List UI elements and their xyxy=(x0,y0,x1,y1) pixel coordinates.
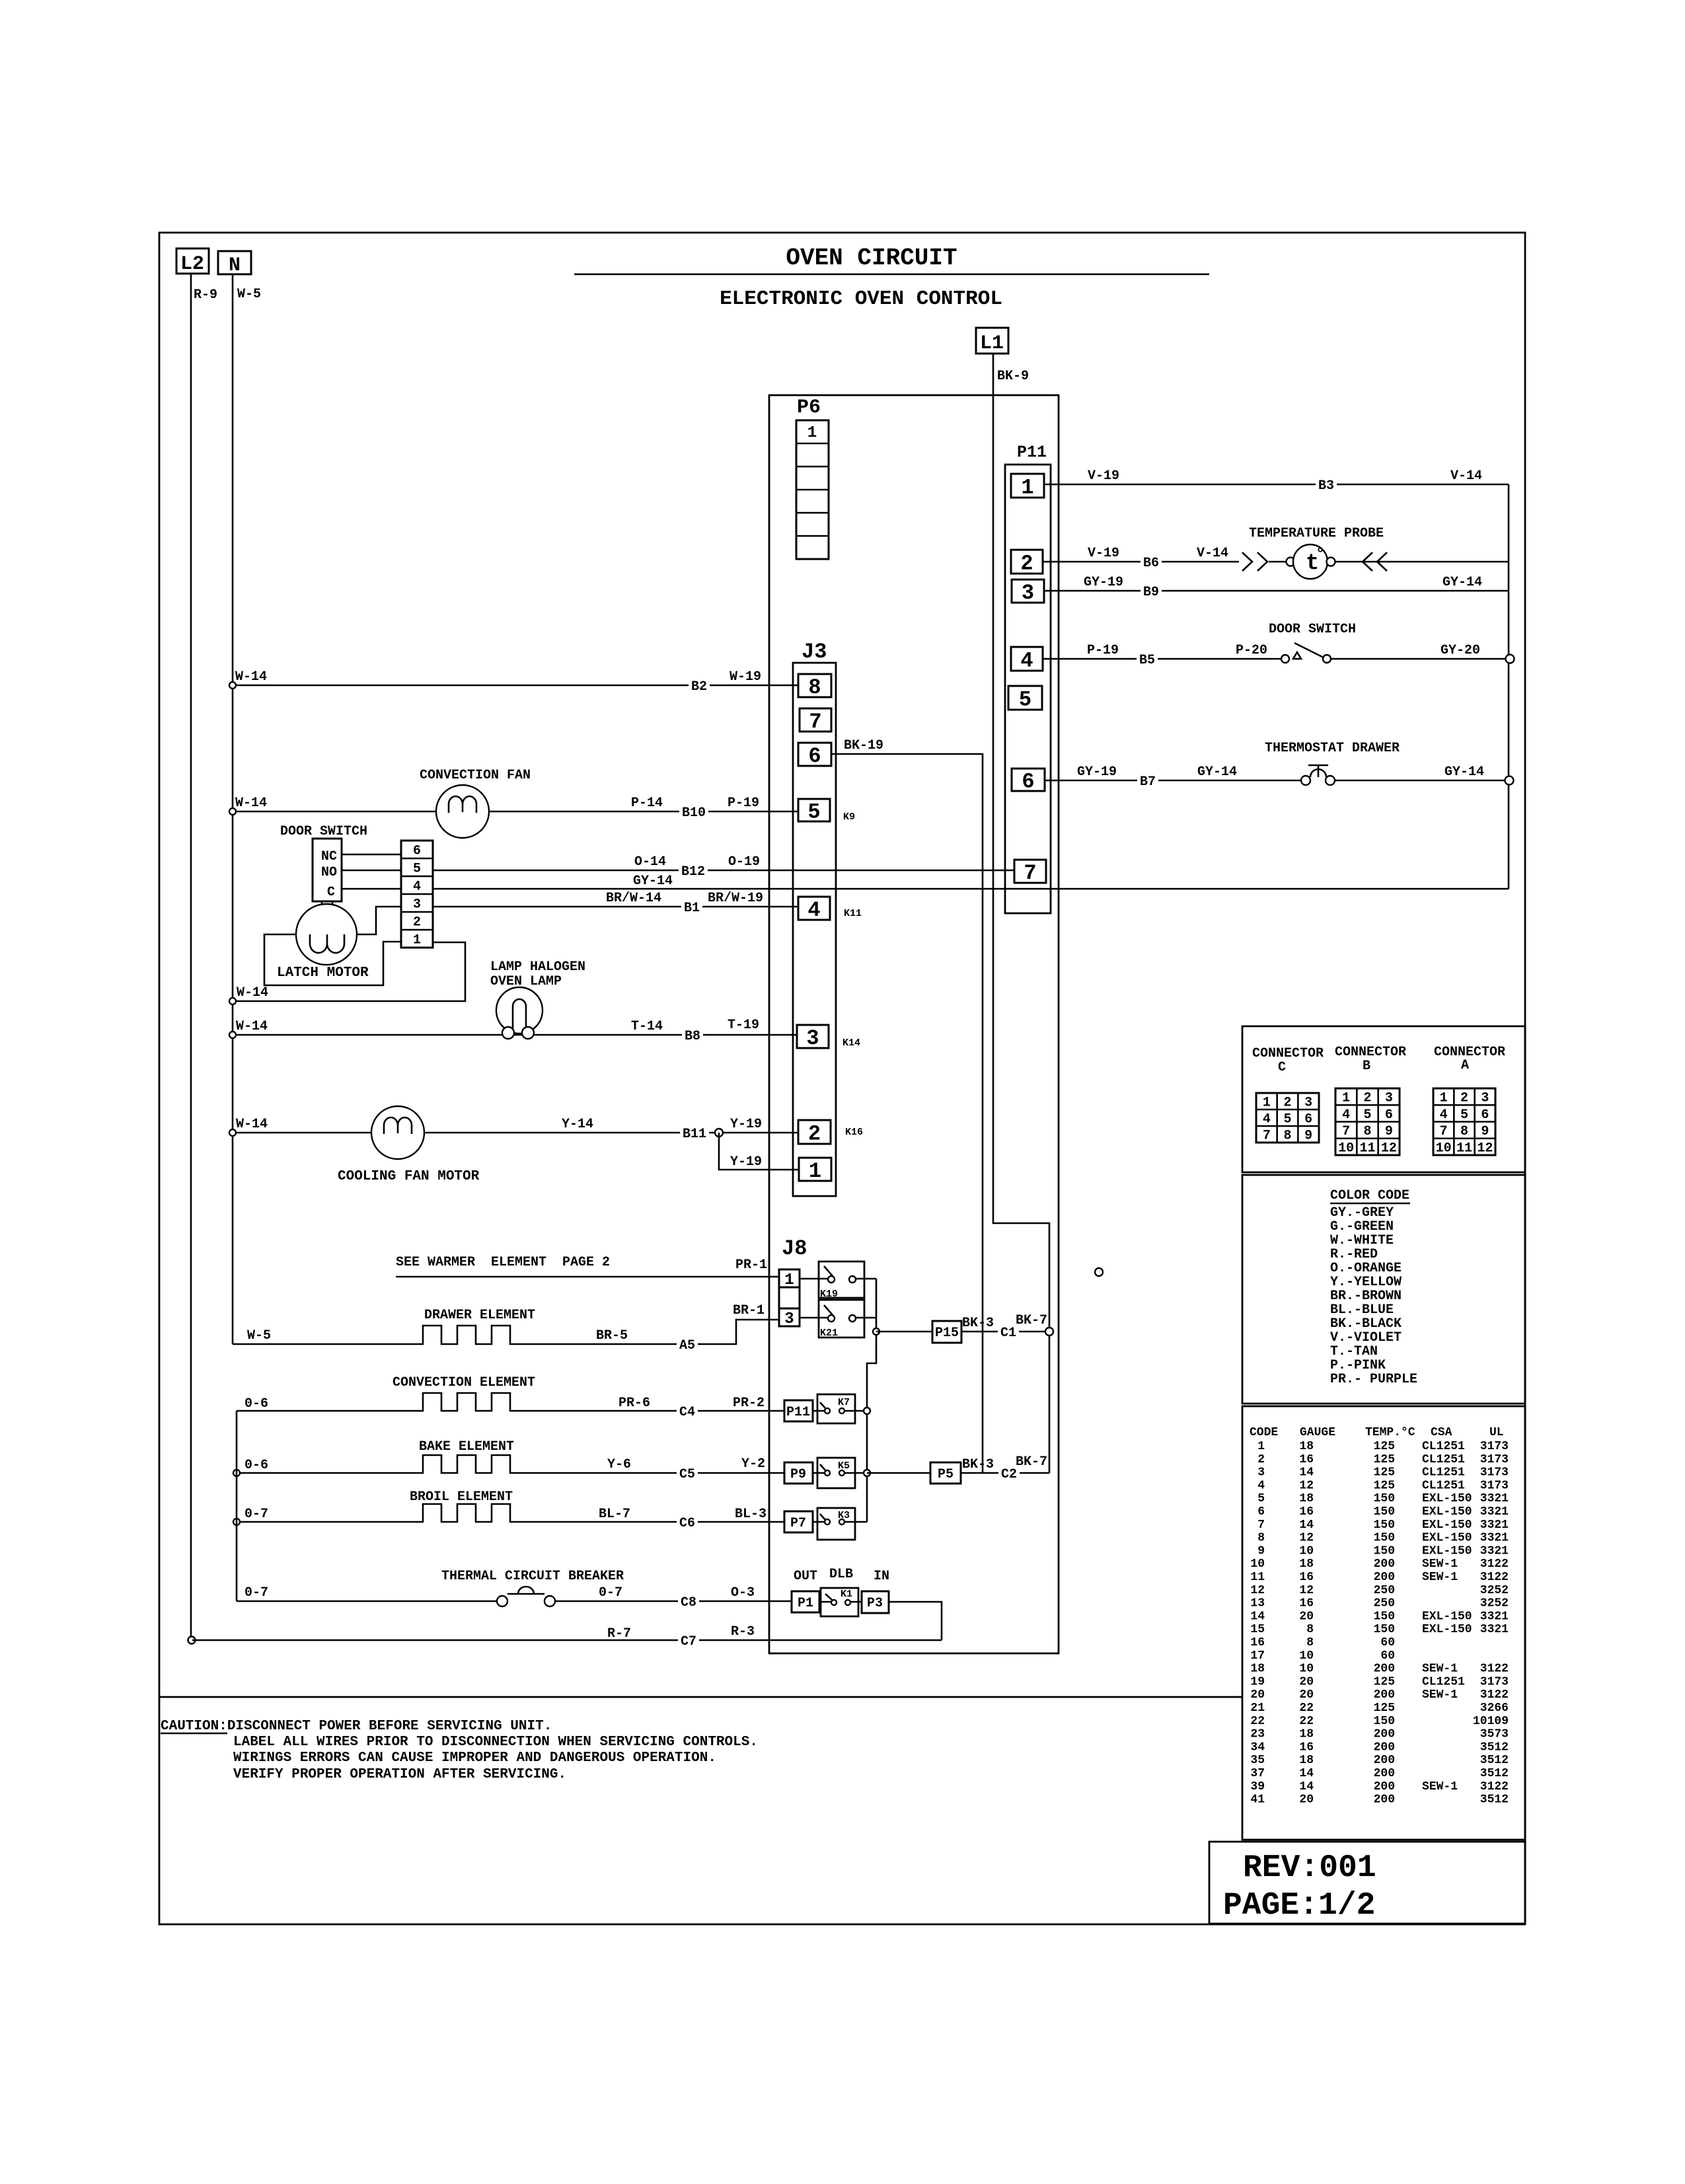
svg-text:0-7: 0-7 xyxy=(244,1585,268,1600)
terminal P7 xyxy=(784,1511,813,1532)
wire C to cell 4 xyxy=(342,888,401,890)
connector P11 outline xyxy=(1005,443,1051,913)
svg-text:14: 14 xyxy=(1299,1466,1314,1480)
svg-text:V-14: V-14 xyxy=(1450,469,1482,484)
svg-text:BK-3: BK-3 xyxy=(962,1316,994,1331)
svg-text:CONVECTION ELEMENT: CONVECTION ELEMENT xyxy=(393,1375,535,1390)
svg-text:PR-6: PR-6 xyxy=(618,1396,650,1411)
svg-text:19: 19 xyxy=(1250,1675,1265,1688)
svg-text:7: 7 xyxy=(809,710,821,734)
svg-text:LAMP HALOGEN: LAMP HALOGEN xyxy=(490,960,585,975)
inline connector chevrons right-pointing xyxy=(1242,552,1267,571)
svg-text:10: 10 xyxy=(1250,1558,1265,1571)
connector A pin grid xyxy=(1433,1088,1495,1156)
terminal P5 xyxy=(930,1462,961,1484)
connector P11 pin 6 xyxy=(1012,769,1045,794)
svg-text:5: 5 xyxy=(413,862,421,877)
svg-text:Y.-YELLOW: Y.-YELLOW xyxy=(1330,1275,1402,1290)
svg-text:22: 22 xyxy=(1250,1715,1265,1728)
svg-text:3321: 3321 xyxy=(1480,1505,1509,1519)
connector B label xyxy=(1335,1045,1406,1074)
wire NC to cell 6 xyxy=(342,854,401,856)
svg-text:J8: J8 xyxy=(782,1236,807,1261)
wire P-19/B5/P-20 from P11 pin 4 xyxy=(1043,658,1505,660)
svg-text:CONNECTOR: CONNECTOR xyxy=(1434,1045,1505,1060)
svg-text:8: 8 xyxy=(1306,1636,1314,1649)
svg-text:10: 10 xyxy=(1299,1649,1314,1663)
svg-text:9: 9 xyxy=(1304,1129,1312,1144)
svg-text:3: 3 xyxy=(1481,1091,1489,1106)
wire door switch box to latch motor stubs xyxy=(322,901,332,905)
svg-text:18: 18 xyxy=(1299,1492,1314,1505)
wire junction to P15 xyxy=(876,1331,932,1333)
svg-text:18: 18 xyxy=(1299,1754,1314,1767)
wire N/W-5 vertical bus xyxy=(232,274,234,1344)
svg-text:2: 2 xyxy=(808,1122,821,1147)
wire designator B2 xyxy=(689,678,710,693)
svg-text:K19: K19 xyxy=(820,1289,838,1300)
convection element xyxy=(237,1375,784,1411)
svg-text:3252: 3252 xyxy=(1480,1584,1509,1597)
wire K7 wiring xyxy=(813,1410,867,1412)
svg-text:DOOR SWITCH: DOOR SWITCH xyxy=(280,824,367,839)
svg-text:W-5: W-5 xyxy=(247,1328,271,1343)
svg-text:3: 3 xyxy=(784,1310,794,1328)
wire designator B12 xyxy=(679,863,708,878)
svg-text:IN: IN xyxy=(874,1569,889,1584)
svg-text:P-14: P-14 xyxy=(631,796,663,811)
svg-text:B1: B1 xyxy=(684,901,700,916)
svg-text:PAGE:1/2: PAGE:1/2 xyxy=(1223,1888,1375,1924)
connector J3 pin 3 xyxy=(797,1025,829,1051)
svg-text:150: 150 xyxy=(1374,1492,1395,1505)
svg-text:REV:001: REV:001 xyxy=(1243,1850,1376,1886)
svg-text:125: 125 xyxy=(1374,1440,1395,1453)
wire code table header xyxy=(1250,1426,1504,1439)
svg-text:GY-14: GY-14 xyxy=(633,874,673,889)
wire W-14 feed to latch cell 1 xyxy=(233,942,465,1001)
svg-text:NC: NC xyxy=(321,849,337,864)
svg-text:GY-20: GY-20 xyxy=(1441,643,1480,658)
svg-text:W.-WHITE: W.-WHITE xyxy=(1330,1233,1394,1248)
wire Y-19 branch to J3 pin 1 xyxy=(719,1133,799,1170)
wire J8 pin3 to K21 xyxy=(800,1317,828,1319)
svg-text:14: 14 xyxy=(1250,1610,1265,1623)
connector J8 middle cell xyxy=(779,1287,800,1308)
junction node at P15 takeoff xyxy=(873,1328,880,1335)
svg-text:125: 125 xyxy=(1374,1466,1395,1480)
right-side vertical bus xyxy=(1508,484,1510,889)
svg-text:1: 1 xyxy=(807,424,817,442)
wire P15 to BK-7 terminal C1 xyxy=(961,1331,1046,1333)
svg-text:1: 1 xyxy=(809,1159,821,1184)
svg-text:CL1251: CL1251 xyxy=(1422,1440,1465,1453)
wire designator C1 xyxy=(998,1324,1019,1339)
relay K7 xyxy=(817,1394,855,1423)
svg-text:W-14: W-14 xyxy=(235,796,267,811)
wire W-14/Y-14/B11 to junction and J3 pin 2 xyxy=(233,1132,798,1134)
svg-text:125: 125 xyxy=(1374,1479,1395,1492)
svg-text:3: 3 xyxy=(806,1026,819,1051)
svg-text:DOOR SWITCH: DOOR SWITCH xyxy=(1269,622,1356,637)
svg-text:2: 2 xyxy=(1460,1091,1468,1106)
wire designator B5 xyxy=(1137,652,1158,666)
junction node on N bus at cooling fan row xyxy=(229,1129,236,1136)
svg-text:GY-19: GY-19 xyxy=(1084,575,1123,590)
svg-text:GY-19: GY-19 xyxy=(1077,765,1117,780)
svg-text:Y-6: Y-6 xyxy=(607,1457,631,1472)
svg-text:3321: 3321 xyxy=(1480,1610,1509,1623)
svg-text:10: 10 xyxy=(1299,1663,1314,1676)
wire GY-14 cell4 to right bus xyxy=(433,888,1509,890)
svg-text:R-3: R-3 xyxy=(731,1624,755,1639)
wire K3 wiring xyxy=(813,1521,867,1523)
svg-text:EXL-150: EXL-150 xyxy=(1422,1492,1472,1505)
svg-text:6: 6 xyxy=(808,744,821,769)
svg-text:18: 18 xyxy=(1299,1440,1314,1453)
svg-text:ELECTRONIC OVEN CONTROL: ELECTRONIC OVEN CONTROL xyxy=(720,287,1002,311)
svg-text:NO: NO xyxy=(321,865,337,880)
svg-text:3173: 3173 xyxy=(1480,1479,1509,1492)
svg-text:K16: K16 xyxy=(845,1127,863,1138)
svg-text:K9: K9 xyxy=(843,811,855,823)
svg-text:P11: P11 xyxy=(786,1405,810,1420)
relay K5 xyxy=(817,1458,855,1488)
svg-text:CONNECTOR: CONNECTOR xyxy=(1335,1045,1406,1060)
element supply vertical bus xyxy=(236,1411,238,1601)
svg-text:P11: P11 xyxy=(1017,443,1047,462)
connector J3 pin 5 xyxy=(798,799,830,825)
svg-text:COOLING FAN MOTOR: COOLING FAN MOTOR xyxy=(338,1169,480,1184)
svg-text:5: 5 xyxy=(1363,1108,1371,1123)
svg-text:4: 4 xyxy=(1263,1112,1271,1127)
connector P11 pin 7 xyxy=(1014,860,1046,885)
svg-text:V-19: V-19 xyxy=(1088,469,1119,484)
svg-text:3512: 3512 xyxy=(1480,1754,1509,1767)
svg-text:EXL-150: EXL-150 xyxy=(1422,1519,1472,1532)
separator line above caution block xyxy=(159,1696,1242,1698)
wire designator B11 xyxy=(680,1125,709,1140)
wire designator B10 xyxy=(679,804,708,819)
svg-text:39: 39 xyxy=(1250,1780,1265,1793)
control board outline box xyxy=(769,395,1059,1653)
svg-text:W-19: W-19 xyxy=(730,669,761,685)
svg-text:UL: UL xyxy=(1489,1426,1504,1439)
svg-text:3: 3 xyxy=(1304,1096,1312,1111)
connector J3 pin 4 xyxy=(798,897,830,923)
svg-text:3: 3 xyxy=(1022,581,1034,605)
svg-text:125: 125 xyxy=(1374,1453,1395,1466)
wire designator C6 xyxy=(677,1515,698,1529)
svg-text:C2: C2 xyxy=(1001,1467,1017,1482)
svg-text:B5: B5 xyxy=(1139,653,1155,668)
svg-text:12: 12 xyxy=(1299,1584,1314,1597)
junction node K5 output xyxy=(864,1470,870,1476)
svg-text:BR.-BROWN: BR.-BROWN xyxy=(1330,1289,1402,1304)
wire designator C7 xyxy=(678,1633,699,1647)
svg-text:P-19: P-19 xyxy=(728,796,759,811)
terminal P9 xyxy=(784,1462,813,1484)
svg-text:P-20: P-20 xyxy=(1236,643,1267,658)
svg-text:200: 200 xyxy=(1374,1793,1395,1807)
svg-text:V.-VIOLET: V.-VIOLET xyxy=(1330,1330,1402,1345)
svg-text:12: 12 xyxy=(1299,1479,1314,1492)
svg-text:10109: 10109 xyxy=(1473,1715,1509,1728)
svg-text:150: 150 xyxy=(1374,1715,1395,1728)
door switch contact block NC/NO/C xyxy=(313,839,342,901)
svg-text:16: 16 xyxy=(1299,1741,1314,1754)
svg-text:BL-7: BL-7 xyxy=(599,1507,630,1522)
caution note text xyxy=(161,1719,758,1782)
svg-text:R-7: R-7 xyxy=(607,1626,631,1641)
relay K21 xyxy=(819,1300,864,1339)
wire latch cell 3 to motor right terminal xyxy=(357,907,401,934)
svg-text:3: 3 xyxy=(1385,1091,1393,1106)
svg-text:10: 10 xyxy=(1299,1544,1314,1558)
svg-text:5: 5 xyxy=(1257,1492,1265,1505)
svg-text:2: 2 xyxy=(1283,1096,1291,1111)
svg-text:°: ° xyxy=(1316,546,1325,564)
wire W-14/B2/W-19 to J3 pin 8 xyxy=(233,685,798,687)
svg-text:B2: B2 xyxy=(691,679,707,695)
svg-text:O-14: O-14 xyxy=(634,854,666,870)
svg-text:CL1251: CL1251 xyxy=(1422,1479,1465,1492)
svg-text:20: 20 xyxy=(1299,1610,1314,1623)
svg-text:J3: J3 xyxy=(802,640,827,664)
svg-text:41: 41 xyxy=(1250,1793,1265,1807)
wire J8 pin1 to K19 xyxy=(800,1278,828,1280)
svg-text:12: 12 xyxy=(1381,1141,1397,1156)
svg-text:P3: P3 xyxy=(867,1596,883,1611)
cooling fan motor xyxy=(338,1106,480,1184)
svg-text:150: 150 xyxy=(1374,1519,1395,1532)
svg-text:P9: P9 xyxy=(790,1467,806,1482)
connector J3 pin 6 xyxy=(798,743,831,769)
svg-text:1: 1 xyxy=(1342,1091,1350,1106)
svg-text:B7: B7 xyxy=(1140,774,1156,790)
wire P5 to BK-7 at C2 xyxy=(961,1472,1049,1474)
svg-text:SEW-1: SEW-1 xyxy=(1422,1558,1458,1571)
svg-text:Y-19: Y-19 xyxy=(730,1154,762,1170)
svg-text:8: 8 xyxy=(1283,1129,1291,1144)
svg-text:BAKE ELEMENT: BAKE ELEMENT xyxy=(419,1439,514,1454)
connector P6 xyxy=(796,396,829,559)
connector P11 pin 3 xyxy=(1012,580,1044,605)
wire designator C2 xyxy=(998,1466,1020,1480)
svg-text:0-7: 0-7 xyxy=(599,1585,622,1600)
relay K19 xyxy=(819,1261,864,1300)
svg-text:150: 150 xyxy=(1374,1532,1395,1545)
svg-text:T-19: T-19 xyxy=(728,1018,759,1033)
svg-text:3122: 3122 xyxy=(1480,1558,1509,1571)
relay K1 double line break xyxy=(821,1588,858,1616)
svg-text:0-6: 0-6 xyxy=(244,1396,268,1412)
svg-text:4: 4 xyxy=(807,898,820,923)
wire code table rows xyxy=(1250,1440,1509,1807)
svg-text:7: 7 xyxy=(1257,1519,1265,1532)
svg-text:200: 200 xyxy=(1374,1754,1395,1767)
svg-text:200: 200 xyxy=(1374,1767,1395,1780)
wire designator B3 xyxy=(1316,477,1337,492)
wire O-14/B12/O-19 cell5 to P11 pin 7 xyxy=(433,870,1014,872)
svg-text:3321: 3321 xyxy=(1480,1532,1509,1545)
svg-text:BK-7: BK-7 xyxy=(1016,1454,1047,1470)
svg-text:3122: 3122 xyxy=(1480,1688,1509,1702)
wire L2/R-9 vertical bus xyxy=(190,274,192,1637)
color code box xyxy=(1242,1175,1525,1404)
svg-text:9: 9 xyxy=(1257,1544,1265,1558)
svg-text:B8: B8 xyxy=(685,1029,700,1044)
svg-text:21: 21 xyxy=(1250,1702,1265,1715)
halogen oven lamp xyxy=(490,960,585,1039)
wire V-19/B6/V-14 from P11 pin 2 xyxy=(1043,561,1509,563)
svg-text:3512: 3512 xyxy=(1480,1741,1509,1754)
svg-text:GY-14: GY-14 xyxy=(1197,765,1237,780)
svg-text:BK.-BLACK: BK.-BLACK xyxy=(1330,1316,1402,1332)
wire latch cell 1 loop to motor left terminal xyxy=(264,934,402,985)
svg-text:C4: C4 xyxy=(679,1405,695,1420)
svg-text:THERMAL CIRCUIT BREAKER: THERMAL CIRCUIT BREAKER xyxy=(441,1569,624,1584)
svg-text:BR/W-19: BR/W-19 xyxy=(708,891,763,906)
svg-text:BROIL ELEMENT: BROIL ELEMENT xyxy=(410,1489,513,1505)
svg-text:7: 7 xyxy=(1342,1124,1350,1139)
svg-text:1: 1 xyxy=(1263,1096,1271,1111)
svg-text:EXL-150: EXL-150 xyxy=(1422,1532,1472,1545)
svg-text:200: 200 xyxy=(1374,1571,1395,1584)
svg-text:O-3: O-3 xyxy=(731,1585,755,1600)
svg-text:B12: B12 xyxy=(681,864,705,880)
wire W-14/T-14/B8/T-19 to J3 pin 3 xyxy=(233,1034,797,1036)
svg-text:8: 8 xyxy=(1306,1623,1314,1636)
svg-text:L2: L2 xyxy=(180,253,204,276)
title OVEN CIRCUIT xyxy=(574,245,1209,274)
page border frame xyxy=(159,233,1525,1924)
svg-text:CAUTION:DISCONNECT POWER BEFOR: CAUTION:DISCONNECT POWER BEFORE SERVICIN… xyxy=(161,1719,552,1734)
svg-text:R-9: R-9 xyxy=(194,287,217,303)
connector J3 pin 1 xyxy=(799,1158,831,1184)
svg-text:18: 18 xyxy=(1250,1663,1265,1676)
wire designator C4 xyxy=(677,1404,698,1418)
wire R-7/C7/R-3 bottom return xyxy=(192,1639,942,1641)
svg-text:3173: 3173 xyxy=(1480,1440,1509,1453)
junction node Y-19 branch xyxy=(715,1129,723,1137)
svg-text:5: 5 xyxy=(1283,1112,1291,1127)
wire designator A5 xyxy=(677,1337,698,1351)
svg-text:C: C xyxy=(327,885,335,900)
supply terminal N xyxy=(218,251,251,277)
svg-text:200: 200 xyxy=(1374,1728,1395,1741)
svg-text:OUT: OUT xyxy=(794,1569,817,1584)
svg-text:5: 5 xyxy=(1019,688,1031,712)
svg-text:B: B xyxy=(1363,1059,1370,1074)
svg-text:22: 22 xyxy=(1299,1715,1314,1728)
svg-text:3173: 3173 xyxy=(1480,1466,1509,1480)
svg-text:200: 200 xyxy=(1374,1688,1395,1702)
wire NO to cell 5 xyxy=(342,870,401,872)
svg-text:R.-RED: R.-RED xyxy=(1330,1247,1378,1262)
svg-text:LABEL ALL WIRES PRIOR TO DISCO: LABEL ALL WIRES PRIOR TO DISCONNECTION W… xyxy=(233,1735,758,1750)
svg-text:V-19: V-19 xyxy=(1088,546,1119,561)
svg-text:8: 8 xyxy=(808,675,821,700)
convection fan motor xyxy=(420,768,531,838)
svg-text:4: 4 xyxy=(1257,1479,1265,1492)
connector J3 pin 2 xyxy=(798,1120,831,1147)
svg-text:SEW-1: SEW-1 xyxy=(1422,1688,1458,1702)
svg-text:200: 200 xyxy=(1374,1558,1395,1571)
svg-text:BK-9: BK-9 xyxy=(997,369,1029,384)
svg-text:6: 6 xyxy=(413,844,421,859)
svg-text:G.-GREEN: G.-GREEN xyxy=(1330,1219,1394,1234)
svg-text:10: 10 xyxy=(1338,1141,1354,1156)
svg-text:3: 3 xyxy=(1257,1466,1265,1480)
svg-text:12: 12 xyxy=(1250,1584,1265,1597)
svg-text:W-14: W-14 xyxy=(236,1019,268,1034)
wire designator B6 xyxy=(1141,554,1162,569)
svg-text:W-14: W-14 xyxy=(236,1117,268,1132)
wire designator C8 xyxy=(678,1594,699,1608)
svg-text:14: 14 xyxy=(1299,1780,1314,1793)
svg-text:3122: 3122 xyxy=(1480,1571,1509,1584)
svg-text:CL1251: CL1251 xyxy=(1422,1675,1465,1688)
svg-text:3266: 3266 xyxy=(1480,1702,1509,1715)
svg-text:10: 10 xyxy=(1436,1141,1452,1156)
svg-text:3252: 3252 xyxy=(1480,1597,1509,1610)
wire BR/W-14/B1/BR/W-19 cell3 to J3 pin 4 xyxy=(433,906,798,908)
wire designator B7 xyxy=(1137,773,1158,788)
svg-text:11: 11 xyxy=(1456,1141,1472,1156)
svg-text:11: 11 xyxy=(1250,1571,1265,1584)
wire relay output vertical chain xyxy=(867,1279,876,1522)
svg-text:0-7: 0-7 xyxy=(244,1507,268,1522)
svg-text:C1: C1 xyxy=(1000,1326,1016,1341)
svg-text:0-6: 0-6 xyxy=(244,1458,268,1473)
svg-text:6: 6 xyxy=(1481,1108,1489,1123)
wire designator B9 xyxy=(1141,584,1162,598)
svg-text:2: 2 xyxy=(1363,1091,1371,1106)
svg-text:O-19: O-19 xyxy=(728,854,760,870)
svg-text:BL-3: BL-3 xyxy=(735,1507,767,1522)
node terminal circle thermostat row xyxy=(1505,776,1514,785)
svg-text:T-14: T-14 xyxy=(631,1019,663,1034)
svg-text:14: 14 xyxy=(1299,1519,1314,1532)
svg-text:V-14: V-14 xyxy=(1197,546,1228,561)
wire GY-19/B7/GY-14 from P11 pin 6 xyxy=(1045,780,1505,782)
svg-text:2: 2 xyxy=(1020,552,1033,576)
svg-text:12: 12 xyxy=(1299,1532,1314,1545)
svg-text:7: 7 xyxy=(1440,1124,1448,1139)
svg-text:W-5: W-5 xyxy=(237,287,261,302)
connector A label xyxy=(1434,1045,1505,1073)
svg-text:125: 125 xyxy=(1374,1702,1395,1715)
svg-text:23: 23 xyxy=(1250,1728,1265,1741)
svg-text:8: 8 xyxy=(1363,1124,1371,1139)
warmer element feed wire PR-1 xyxy=(396,1255,779,1277)
svg-text:250: 250 xyxy=(1374,1597,1395,1610)
svg-text:3: 3 xyxy=(413,897,421,913)
thermal circuit breaker xyxy=(237,1569,624,1606)
node terminal circle at bottom of L2 bus xyxy=(188,1637,196,1644)
latch motor xyxy=(277,904,369,981)
wire designator C5 xyxy=(677,1466,698,1480)
connector J8 pin 1 xyxy=(779,1269,800,1289)
svg-text:LATCH MOTOR: LATCH MOTOR xyxy=(277,965,369,981)
svg-text:4: 4 xyxy=(1440,1108,1448,1123)
svg-text:EXL-150: EXL-150 xyxy=(1422,1623,1472,1636)
connector C label xyxy=(1252,1046,1324,1075)
svg-text:GY-14: GY-14 xyxy=(1442,575,1482,590)
connector P11 pin 5 xyxy=(1008,686,1042,712)
wire designator B1 xyxy=(681,899,702,914)
